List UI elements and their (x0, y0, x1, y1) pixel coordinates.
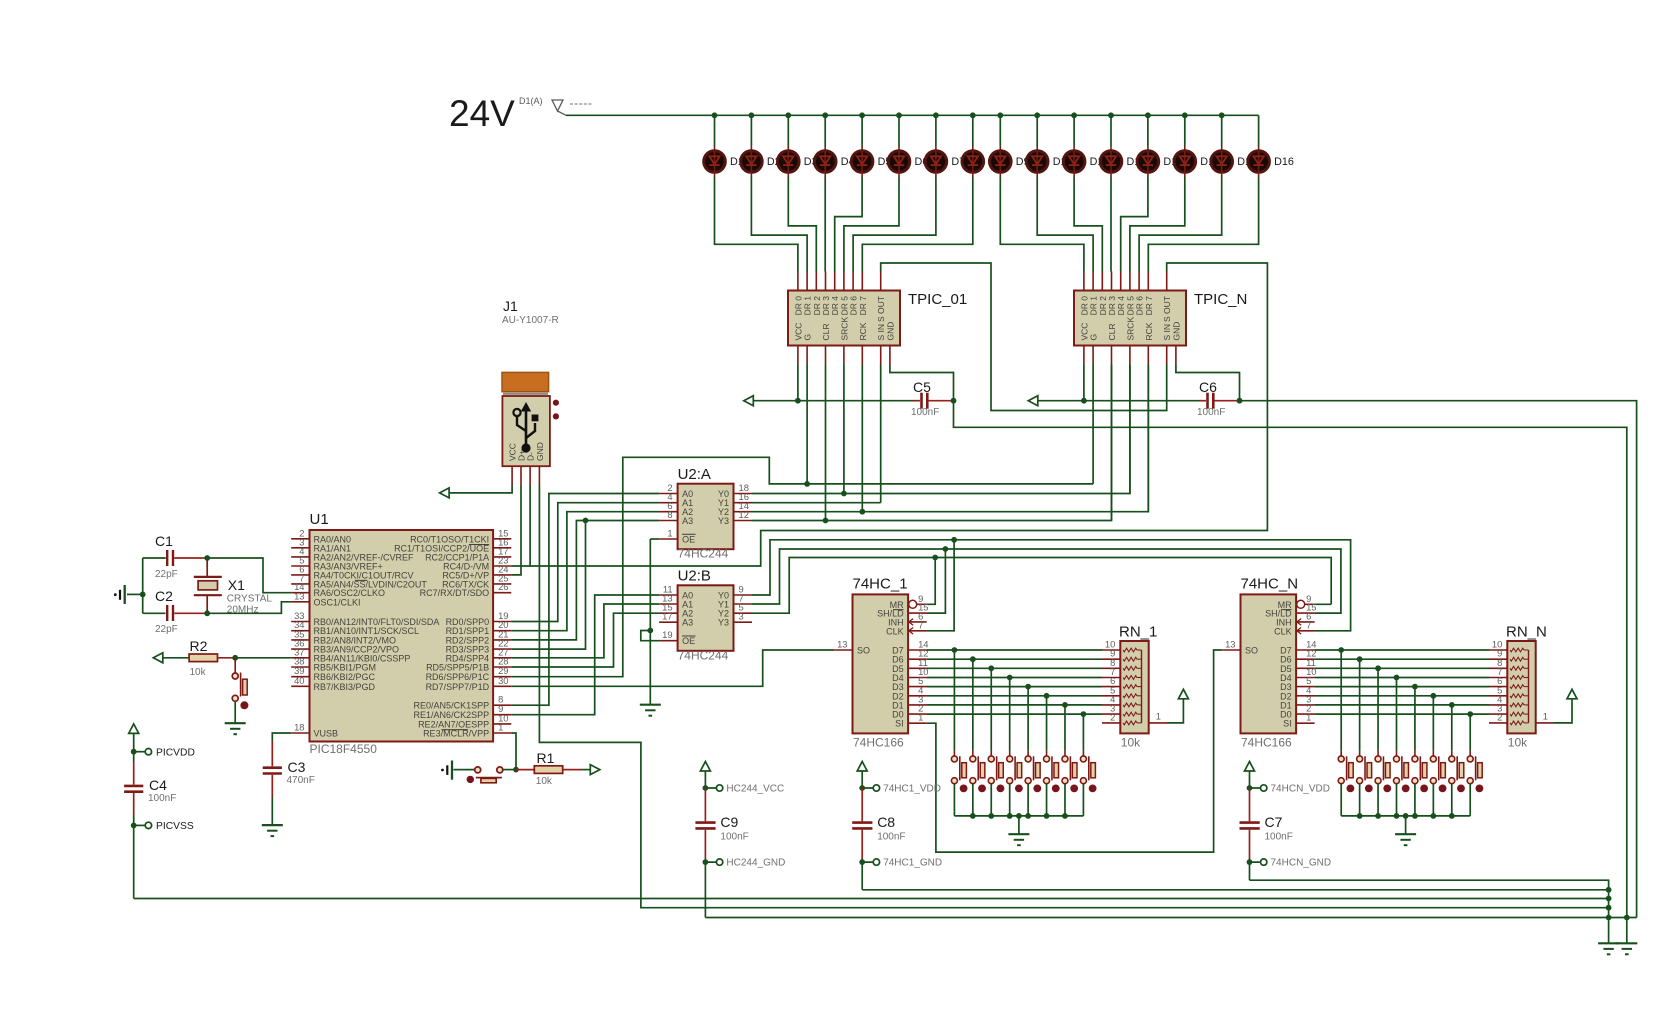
wire 74HC_N D5 to RN_N (1315, 667, 1489, 669)
junction crystal bottom (204, 610, 210, 616)
pin 1 SI of 74HC_1 (908, 722, 927, 724)
pin 2 RA0/AN0 of U1 (291, 538, 309, 540)
wire D3 to TPIC_01 DR2 (788, 177, 816, 272)
svg-text:RE0/AN5/CK1SPP: RE0/AN5/CK1SPP (414, 701, 490, 711)
wire D14 to TPIC_N DR5 (1130, 177, 1185, 272)
wire terminal to button (454, 769, 475, 771)
pin 3 D1 of 74HC_N (1296, 704, 1315, 706)
svg-text:PICVSS: PICVSS (156, 821, 194, 832)
pin 39 RB6/KBI2/PGC of U1 (291, 676, 309, 678)
junction switch rail 2 (1412, 813, 1418, 819)
LED D12 (1110, 115, 1112, 146)
junction on 24V bus (1219, 112, 1225, 118)
pin 36 RB3/AN9/CCP2/VPO of U1 (291, 648, 309, 650)
push-button SW1 (953, 650, 955, 751)
svg-text:74HC1_GND: 74HC1_GND (883, 858, 942, 869)
svg-text:U2:A: U2:A (678, 466, 711, 483)
junction switch tap N D5 (1375, 665, 1381, 671)
wire PICVDD branch (133, 733, 135, 762)
pin 17 RC2/CCP1/P1A of U1 (493, 556, 511, 558)
svg-text:74HC244: 74HC244 (678, 648, 729, 662)
svg-text:RN_N: RN_N (1506, 623, 1547, 640)
svg-text:SRCK: SRCK (839, 317, 849, 341)
wire TPIC_N GND to ground rail (1240, 401, 1637, 918)
push-button RESET2 (475, 767, 481, 773)
pin VCC of J1 (511, 466, 513, 485)
resistor element 8 of RN_1 (1123, 712, 1137, 716)
pin 5 of RN_1 (1102, 695, 1120, 697)
pin 29 RD6/SPP6/P1C of U1 (493, 676, 511, 678)
junction on 24V bus (749, 112, 755, 118)
pin 5 D3 of 74HC_1 (908, 686, 927, 688)
resistor network RN_N (1507, 641, 1535, 733)
terminal bar R1 left (451, 761, 453, 780)
pin SIN of TPIC_01 (880, 346, 882, 365)
wire 74HC_1 D5 to RN_1 (927, 667, 1102, 669)
svg-text:74HC166: 74HC166 (853, 736, 904, 750)
wire D9 to TPIC_N DR0 (1000, 177, 1084, 272)
pin DR7 of TPIC_N (1147, 272, 1149, 291)
pin 25 RC6/TX/CK of U1 (493, 583, 511, 585)
svg-text:RB7/KBI3/PGD: RB7/KBI3/PGD (314, 682, 376, 692)
push-button SW5 (1027, 687, 1029, 751)
junction on 24V bus (859, 112, 865, 118)
svg-text:C1: C1 (155, 533, 173, 549)
wire U2:B Y0 to CLK bus (752, 540, 1351, 631)
pin 10 D4 of 74HC_1 (908, 677, 927, 679)
wire VCC TPIC_N (1083, 365, 1085, 401)
junction ground drop 2 (1403, 813, 1409, 819)
resistor element 6 of RN_1 (1123, 694, 1137, 698)
push-button SW2 (972, 659, 974, 751)
LED D13 (1147, 115, 1149, 146)
LED D6 (898, 115, 900, 146)
svg-text:RN_1: RN_1 (1119, 623, 1157, 640)
svg-text:74HC166: 74HC166 (1241, 736, 1292, 750)
svg-text:100nF: 100nF (148, 793, 176, 804)
pin 2 D0 of 74HC_1 (908, 713, 927, 715)
svg-text:2: 2 (1497, 711, 1502, 722)
svg-text:1: 1 (1306, 712, 1311, 723)
wire CLR TPIC_N (1111, 365, 1113, 521)
svg-text:C2: C2 (155, 588, 173, 604)
svg-text:100nF: 100nF (911, 407, 939, 418)
svg-text:S OUT: S OUT (1162, 296, 1172, 322)
wire RD5 to U2:B A2 (511, 613, 659, 667)
wire D10 to TPIC_N DR1 (1037, 177, 1093, 272)
pin 7 CLK of 74HC_1 (908, 630, 927, 632)
pin 7 of RN_1 (1102, 677, 1120, 679)
pin 6 RA4/T0CKI/C1OUT/RCV of U1 (291, 574, 309, 576)
power arrow RN_1 (1178, 689, 1188, 699)
junction rail C9 (1606, 915, 1612, 921)
wire C3 to ground (271, 797, 273, 825)
svg-text:C4: C4 (149, 777, 167, 793)
LED D1 (714, 115, 716, 146)
wire rail 1 to ground (1018, 816, 1020, 834)
pin 18 Y0 of U2:A (734, 493, 753, 495)
svg-text:8: 8 (667, 509, 672, 520)
pin 8 RE0/AN5/CK1SPP of U1 (493, 704, 511, 706)
svg-text:GND: GND (885, 322, 895, 341)
wire C6 rail left (1038, 400, 1200, 402)
svg-text:OE: OE (682, 636, 695, 646)
wire D12 to TPIC_N DR3 (1110, 177, 1112, 272)
wire RN_1 pin1 to VDD arrow (1167, 699, 1183, 723)
resistor element 1 of RN_1 (1123, 648, 1137, 652)
pin 7 CLK of 74HC_N (1296, 630, 1315, 632)
capacitor C5 (914, 400, 920, 402)
junction SRCK bus (841, 491, 847, 497)
junction on 24V bus (1034, 112, 1040, 118)
svg-text:22pF: 22pF (155, 569, 178, 580)
svg-text:TPIC_N: TPIC_N (1194, 291, 1247, 308)
wire C5 rail left (753, 400, 914, 402)
pin 4 of RN_1 (1102, 704, 1120, 706)
wire switch common rail 2 (1341, 815, 1470, 817)
capacitor C4 (133, 762, 135, 785)
svg-text:U2:B: U2:B (678, 567, 711, 584)
svg-text:RD7/SPP7/P1D: RD7/SPP7/P1D (426, 682, 490, 692)
ground OE (640, 704, 661, 706)
wire D5 to TPIC_01 DR4 (835, 177, 862, 272)
pin 4 RA2/AN2/VREF-/CVREF of U1 (291, 556, 309, 558)
svg-text:1: 1 (667, 528, 672, 539)
pin CLR of TPIC_N (1111, 346, 1113, 365)
svg-text:AU-Y1007-R: AU-Y1007-R (502, 315, 559, 326)
pin dots of J1 (553, 400, 559, 406)
wire MR 74HC_N stub link (1315, 603, 1332, 605)
junction switch tap N D1 (1449, 702, 1455, 708)
svg-text:RCK: RCK (1144, 322, 1154, 340)
junction switch rail 2 (1430, 813, 1436, 819)
pin 10 of RN_1 (1102, 649, 1120, 651)
wire RCK TPIC_01 (861, 365, 863, 512)
push-button SW6 (1046, 696, 1048, 751)
wire RD0 to U2:A A1 (511, 503, 659, 622)
overline MCLR in RE3 name (442, 729, 468, 731)
pin 26 RC7/RX/DT/SDO of U1 (493, 592, 511, 594)
pin 1 of RN_1 (1149, 722, 1167, 724)
svg-text:1: 1 (1543, 710, 1548, 721)
junction switch tap D1 (1062, 702, 1068, 708)
svg-text:C3: C3 (288, 759, 306, 775)
resistor R2 (189, 654, 217, 662)
wire D11 to TPIC_N DR2 (1074, 177, 1102, 272)
pin 15 RC0/T1OSO/T1CKI of U1 (493, 538, 511, 540)
svg-text:1: 1 (498, 722, 503, 733)
shift-register 74HC_N (1241, 594, 1297, 733)
svg-text:19: 19 (662, 629, 672, 640)
buffer U2:B (678, 585, 734, 651)
svg-text:100nF: 100nF (877, 832, 905, 843)
svg-text:C7: C7 (1265, 814, 1283, 830)
LED D2 (750, 115, 752, 146)
junction switch rail 2 (1394, 813, 1400, 819)
svg-text:CRYSTAL: CRYSTAL (227, 594, 273, 605)
junction on 24V bus (785, 112, 791, 118)
pin RCK of TPIC_01 (861, 346, 863, 365)
junction switch tap D0 (1081, 711, 1087, 717)
junction rail PICVSS (1606, 896, 1612, 902)
LED D5 (861, 115, 863, 146)
microcontroller U1 (310, 530, 494, 742)
junction crystal rail (140, 592, 146, 598)
svg-text:C5: C5 (913, 379, 931, 395)
pin 4 D2 of 74HC_1 (908, 695, 927, 697)
pin DR3 of TPIC_01 (825, 272, 827, 291)
pin 6 A2 of U2:A (659, 511, 678, 513)
svg-text:CLR: CLR (821, 323, 831, 340)
pin 1 OE of U2:A (659, 538, 678, 540)
svg-text:R1: R1 (537, 750, 555, 766)
wire D6 to TPIC_01 DR5 (844, 177, 899, 272)
pin DR1 of TPIC_01 (806, 272, 808, 291)
wire VUSB to C3 (272, 733, 291, 741)
svg-text:GND: GND (1171, 322, 1181, 341)
wire RD1 to U2:A A2 (511, 512, 659, 631)
wire VCC TPIC_01 (797, 365, 799, 401)
svg-text:1: 1 (1156, 710, 1161, 721)
terminal PICVDD (134, 751, 146, 753)
svg-text:74HCN_GND: 74HCN_GND (1271, 858, 1332, 869)
svg-text:7: 7 (1306, 619, 1311, 630)
wire C9 ground rail (705, 917, 1636, 919)
wire 74HC_1 D4 to RN_1 (927, 677, 1102, 679)
pin GND of J1 (538, 466, 540, 485)
svg-text:Y3: Y3 (718, 618, 729, 628)
push-button SW9 (1340, 650, 1342, 751)
svg-text:74HC244: 74HC244 (678, 547, 729, 561)
push-button SW12 (1395, 678, 1397, 751)
junction rail C8 (1606, 887, 1612, 893)
wire OE ground vertical (649, 539, 651, 704)
pin 19 OE of U2:B (659, 640, 678, 642)
pin 9 Y0 of U2:B (734, 594, 753, 596)
pin 21 RD2/SPP2 of U1 (493, 639, 511, 641)
push-button SW7 (1064, 705, 1066, 751)
pin 13 SO of 74HC_1 (834, 649, 852, 651)
junction on 24V bus (997, 112, 1003, 118)
wire SIN TPIC_01 (880, 365, 882, 503)
push-button SW3 (990, 668, 992, 750)
wire 74HC_N D1 to RN_N (1315, 704, 1489, 706)
pin 7 of RN_N (1489, 677, 1507, 679)
svg-text:RB6/KBI2/PGC: RB6/KBI2/PGC (314, 672, 376, 682)
svg-text:40: 40 (294, 675, 304, 686)
junction R1 node (513, 767, 519, 773)
junction switch tap N D4 (1394, 675, 1400, 681)
pin CLR of TPIC_01 (825, 346, 827, 365)
svg-text:VUSB: VUSB (314, 729, 339, 739)
resistor element 1 of RN_N (1510, 648, 1524, 652)
svg-text:C6: C6 (1199, 379, 1217, 395)
junction switch tap D3 (1025, 684, 1031, 690)
pin 12 D6 of 74HC_N (1296, 658, 1315, 660)
pin DR6 of TPIC_N (1138, 272, 1140, 291)
pin 13 OSC1/CLKI of U1 (291, 601, 309, 603)
svg-text:10k: 10k (536, 776, 553, 787)
junction RCK bus (859, 509, 865, 515)
pin 33 RB0/AN12/INT0/FLT0/SDI/SDA of U1 (291, 621, 309, 623)
ground C3 (262, 824, 283, 826)
pin SRCK of TPIC_01 (843, 346, 845, 365)
wire U2:B Y2 to MR bus (752, 558, 1331, 614)
svg-text:HC244_GND: HC244_GND (726, 858, 785, 869)
svg-text:1: 1 (918, 712, 923, 723)
junction PICVSS tap (131, 823, 137, 829)
svg-text:SI: SI (895, 719, 904, 729)
wire RD4 to U2:B A1 (511, 604, 659, 658)
ground main 1 (1598, 942, 1619, 944)
pin 9 of RN_N (1489, 658, 1507, 660)
svg-text:100nF: 100nF (1197, 407, 1225, 418)
pin 11 D5 of 74HC_N (1296, 667, 1315, 669)
terminal arrow C6 rail (1028, 396, 1038, 406)
capacitor C9 branch with HC244_VCC HC244_GND (700, 762, 710, 772)
wire Y2 bus RCK (752, 365, 1148, 512)
svg-text:OE: OE (682, 535, 695, 545)
wire arrow to R2 (163, 657, 189, 659)
svg-text:SO: SO (1245, 646, 1258, 656)
wire G TPIC_N (1092, 365, 1094, 484)
resistor element 8 of RN_N (1510, 712, 1524, 716)
pin 7 RA5/AN4/SS/LVDIN/C2OUT of U1 (291, 583, 309, 585)
pin 3 Y3 of U2:B (734, 621, 753, 623)
svg-text:10k: 10k (1508, 736, 1528, 750)
push-button SW16 (1469, 714, 1471, 751)
wire C8 ground rail (862, 889, 1608, 891)
wire switch common rail 1 (954, 815, 1083, 817)
wire crystal left rail (142, 558, 144, 613)
wire D7 to TPIC_01 DR6 (853, 177, 936, 272)
resistor element 2 of RN_1 (1123, 657, 1137, 661)
pin 40 RB7/KBI3/PGD of U1 (291, 685, 309, 687)
wire D2 to TPIC_01 DR1 (751, 177, 807, 272)
push-button SW11 (1377, 668, 1379, 750)
svg-text:R2: R2 (190, 638, 208, 654)
junction switch rail 2 (1449, 813, 1455, 819)
resistor element 3 of RN_N (1510, 666, 1524, 670)
svg-text:17: 17 (662, 611, 672, 622)
pin 1 SI of 74HC_N (1296, 722, 1315, 724)
ground button (225, 722, 246, 724)
pin DR1 of TPIC_N (1092, 272, 1094, 291)
pin D- of J1 (529, 466, 531, 485)
pin 30 RD7/SPP7/P1D of U1 (493, 685, 511, 687)
ground switch rail 2 (1395, 833, 1416, 835)
junction ground drop 1 (1016, 813, 1022, 819)
terminal arrow R1 (590, 765, 600, 775)
wire U2:B OE loop (641, 631, 659, 641)
wire terminal to crystal rail (127, 593, 143, 595)
svg-text:12: 12 (739, 509, 749, 520)
wire 74HC_N D6 to RN_N (1315, 658, 1489, 660)
wire D15 to TPIC_N DR6 (1139, 177, 1222, 272)
pin VCC of TPIC_01 (797, 346, 799, 365)
svg-text:G: G (803, 334, 813, 341)
junction on 24V bus (1071, 112, 1077, 118)
pin 5 of RN_N (1489, 695, 1507, 697)
resistor element 5 of RN_1 (1123, 685, 1137, 689)
terminal bar crystal left (124, 585, 126, 604)
wire C7 ground rail (1250, 880, 1609, 943)
push-button SW4 (1009, 678, 1011, 751)
junction switch tap D4 (1007, 675, 1013, 681)
pin 15 SH/LD of 74HC_1 (908, 612, 927, 614)
pin 14 D7 of 74HC_N (1296, 649, 1315, 651)
internal bus of RN_N (1528, 650, 1530, 723)
shift-register TPIC_N (1074, 291, 1186, 346)
junction switch rail 2 (1357, 813, 1363, 819)
internal bus of RN_1 (1141, 650, 1143, 723)
pin 2 D0 of 74HC_N (1296, 713, 1315, 715)
pin 14 D7 of 74HC_1 (908, 649, 927, 651)
junction VCC TPIC_N (1081, 398, 1087, 404)
wire button to ground (234, 701, 236, 722)
junction rail second ground (1624, 915, 1630, 921)
wire J1 D+ to RC5 (511, 485, 521, 575)
svg-text:S OUT: S OUT (876, 296, 886, 322)
wire RD6 to TPIC G bus (511, 457, 1093, 676)
resistor R1 (516, 769, 534, 771)
overline SS in RA5 name (355, 579, 367, 581)
pin S OUT of TPIC_N (1166, 272, 1168, 291)
wire PICVSS ground rail (134, 898, 1609, 900)
svg-text:D1(A): D1(A) (519, 96, 543, 106)
pin 2 of RN_1 (1102, 722, 1120, 724)
pin 9 RE1/AN6/CK2SPP of U1 (493, 714, 511, 716)
wire G TPIC_01 (806, 365, 808, 484)
wire TPIC_N GND (1176, 365, 1240, 401)
pin D+ of J1 (520, 466, 522, 485)
power arrow RN_N (1567, 689, 1577, 699)
svg-text:10k: 10k (1121, 736, 1141, 750)
svg-text:PICVDD: PICVDD (156, 747, 195, 758)
wire 74HC_1 D6 to RN_1 (927, 658, 1102, 660)
capacitor C7 branch with 74HCN_VDD 74HCN_GND (1245, 762, 1255, 772)
pin DR5 of TPIC_N (1129, 272, 1131, 291)
svg-text:18: 18 (294, 722, 304, 733)
svg-text:CLR: CLR (1107, 323, 1117, 340)
pin 10 D4 of 74HC_N (1296, 677, 1315, 679)
pin RCK of TPIC_N (1147, 346, 1149, 365)
wire 74HC_N D2 to RN_N (1315, 695, 1489, 697)
pin GND of TPIC_N (1175, 346, 1177, 365)
pin DR5 of TPIC_01 (843, 272, 845, 291)
pin 8 A3 of U2:A (659, 520, 678, 522)
pin 3 RA1/AN1 of U1 (291, 547, 309, 549)
push-button SW15 (1451, 705, 1453, 751)
pin 16 RC1/T1OSI/CCP2/UOE of U1 (493, 547, 511, 549)
wire U2:A OE (650, 538, 659, 540)
svg-text:X1: X1 (228, 577, 245, 593)
wire R2 to RB4 (235, 657, 291, 659)
svg-text:DR 7: DR 7 (1144, 296, 1154, 316)
junction switch tap N D0 (1467, 711, 1473, 717)
pin 8 of RN_1 (1102, 667, 1120, 669)
pin 6 INH of 74HC_N (1296, 621, 1315, 623)
junction switch rail 1 (1044, 813, 1050, 819)
pin 18 VUSB of U1 (291, 732, 309, 734)
pin 13 A1 of U2:B (659, 603, 678, 605)
resistor element 9 of RN_N (1510, 721, 1524, 725)
svg-text:C9: C9 (720, 814, 738, 830)
junction on 24V bus (1108, 112, 1114, 118)
pin 4 A1 of U2:A (659, 502, 678, 504)
LED D7 (935, 115, 937, 146)
junction CLK 74HC_1 (951, 537, 957, 543)
